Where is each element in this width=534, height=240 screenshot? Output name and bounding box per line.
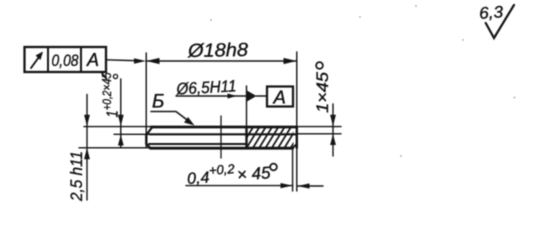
extension bottom face to left <box>79 147 150 149</box>
hole wall (section) <box>245 127 247 149</box>
dimension 0,4 line right part with arrow <box>298 185 324 187</box>
dimension 0,4 line left part with arrow <box>186 185 293 187</box>
runout tolerance frame <box>25 47 107 72</box>
frame corner tick <box>102 73 107 80</box>
svg-text:2,5 h11: 2,5 h11 <box>67 151 86 202</box>
svg-text:Ø18h8: Ø18h8 <box>187 40 249 62</box>
datum A solid triangle <box>247 90 257 102</box>
scan specks <box>210 5 515 157</box>
dimension 1+0,2x45: line and arrows <box>120 79 122 148</box>
svg-text:Ø6,5H11: Ø6,5H11 <box>175 77 237 98</box>
chamfer edge line top <box>150 133 297 135</box>
leader from frame to extension line <box>106 60 140 61</box>
extension chamfer line to left <box>114 133 150 135</box>
datum A connector <box>257 95 268 97</box>
degree circle of 1x45 right <box>316 62 323 69</box>
datum A box <box>267 87 293 107</box>
svg-text:A: A <box>273 87 286 108</box>
degree circle of 0,4 chamfer <box>270 164 277 171</box>
degree circle of 1+0,2 chamfer <box>113 74 117 78</box>
extension of hole wall up <box>246 86 248 127</box>
runout arrow symbol <box>31 54 42 69</box>
svg-text:Б: Б <box>152 92 164 113</box>
svg-text:1×45: 1×45 <box>313 71 332 113</box>
leader of surface B <box>151 112 191 123</box>
dimension 1x45 right: extension lines <box>298 126 341 128</box>
extension line left of O18 <box>145 53 147 147</box>
hatching of section <box>233 126 305 150</box>
dimension 0,4+0,2x45: extension line left <box>292 150 294 191</box>
part outline (half view / half section of disc) <box>152 126 297 129</box>
svg-text:0,4+0,2× 45: 0,4+0,2× 45 <box>186 159 271 188</box>
chamfer edge line bottom <box>149 143 247 145</box>
dimension 2,5h11: line and arrows <box>86 95 88 201</box>
dimension 1x45 right: line and arrows <box>332 104 334 156</box>
svg-text:0,08: 0,08 <box>52 51 79 70</box>
svg-text:6,3: 6,3 <box>478 3 504 23</box>
axis centerline <box>220 116 222 158</box>
svg-text:1+0,2×45: 1+0,2×45 <box>99 72 122 118</box>
extension line right of O18 (continues down to 0,4 dim) <box>296 52 298 191</box>
dimension line O18h8 <box>146 60 297 62</box>
roughness symbol 6,3 <box>486 5 514 38</box>
svg-text:A: A <box>86 50 99 70</box>
dimension line O6,5H11 <box>176 95 247 97</box>
extension top face to left <box>84 126 152 128</box>
